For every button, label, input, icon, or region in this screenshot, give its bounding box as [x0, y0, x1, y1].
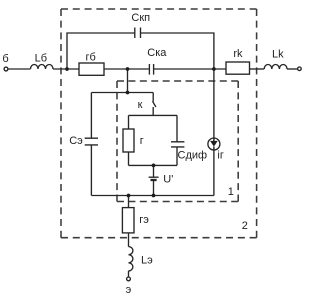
- svg-text:э: э: [126, 284, 132, 296]
- svg-text:iг: iг: [217, 149, 223, 161]
- svg-text:Ска: Ска: [147, 47, 167, 59]
- svg-text:U': U': [163, 173, 173, 185]
- svg-text:б: б: [2, 53, 8, 65]
- svg-text:Сэ: Сэ: [69, 135, 83, 147]
- svg-text:к: к: [138, 99, 143, 111]
- svg-text:Lб: Lб: [35, 52, 47, 64]
- svg-text:гэ: гэ: [139, 214, 149, 226]
- svg-text:Скп: Скп: [131, 12, 150, 24]
- svg-text:Lk: Lk: [272, 49, 284, 61]
- svg-text:г: г: [140, 135, 144, 147]
- svg-text:2: 2: [242, 220, 248, 232]
- svg-text:Сдиф: Сдиф: [178, 150, 208, 162]
- svg-text:rk: rk: [233, 48, 243, 60]
- svg-text:гб: гб: [86, 52, 96, 64]
- svg-text:Lэ: Lэ: [141, 255, 153, 267]
- svg-text:1: 1: [228, 186, 234, 198]
